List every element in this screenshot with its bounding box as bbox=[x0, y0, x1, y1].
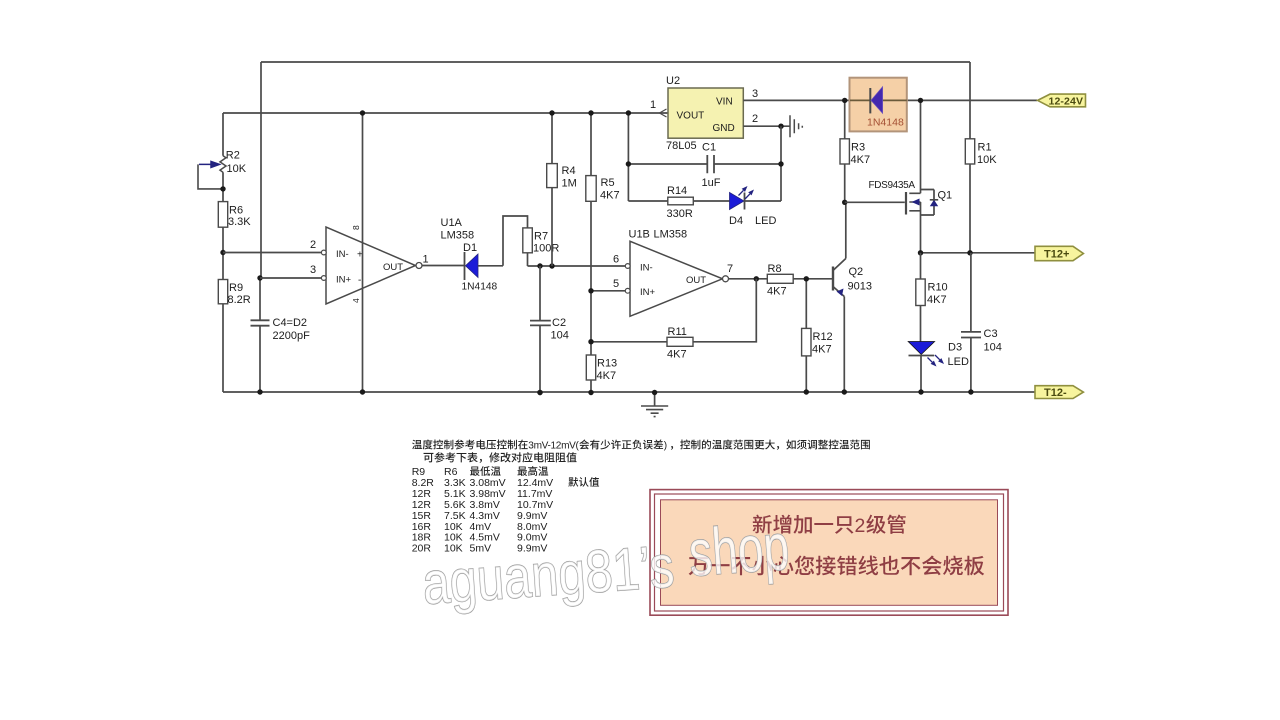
node R11 left bbox=[588, 339, 593, 344]
node out7 junction bbox=[754, 276, 759, 281]
capacitor C3 bbox=[970, 253, 972, 392]
svg-text:104: 104 bbox=[551, 330, 569, 342]
wire pin6 bbox=[624, 265, 626, 267]
note box added diode bbox=[650, 490, 1008, 616]
resistor R1 bbox=[965, 139, 974, 164]
svg-text:1N4148: 1N4148 bbox=[867, 117, 904, 129]
svg-text:FDS9435A: FDS9435A bbox=[869, 180, 916, 191]
resistor R6 bbox=[218, 202, 227, 228]
svg-text:2200pF: 2200pF bbox=[273, 330, 311, 342]
wire U1A out bbox=[422, 265, 464, 267]
svg-text:78L05: 78L05 bbox=[666, 140, 697, 152]
svg-text:6: 6 bbox=[613, 254, 619, 266]
svg-text:10K: 10K bbox=[977, 154, 997, 166]
svg-text:D1: D1 bbox=[463, 242, 477, 254]
wire U1A power bbox=[362, 113, 364, 392]
regulator U2 78L05 bbox=[668, 88, 743, 138]
diode D1 1N4148 bbox=[464, 252, 466, 280]
node pin5 bbox=[588, 288, 593, 293]
svg-text:4K7: 4K7 bbox=[667, 349, 687, 361]
transistor Q2 9013 bbox=[832, 267, 834, 291]
resistor R12 bbox=[805, 279, 807, 392]
svg-text:R6: R6 bbox=[229, 205, 243, 217]
node U1A pin8 bbox=[360, 110, 365, 115]
node gnd-left bbox=[537, 390, 542, 395]
svg-text:R7: R7 bbox=[534, 231, 548, 243]
node R2-R6 junction bbox=[220, 186, 225, 191]
LED D4 bbox=[730, 193, 745, 210]
svg-text:R10: R10 bbox=[928, 282, 948, 294]
svg-text:1uF: 1uF bbox=[702, 177, 721, 189]
node C2 tap bbox=[537, 263, 542, 268]
ground main bbox=[654, 393, 656, 407]
node GND junction bbox=[778, 124, 783, 129]
node C2 bottom bbox=[537, 390, 542, 395]
capacitor C1 bbox=[628, 163, 781, 165]
svg-text:7: 7 bbox=[727, 263, 733, 275]
resistor R14 bbox=[628, 200, 729, 202]
svg-text:1: 1 bbox=[423, 254, 429, 266]
svg-text:1: 1 bbox=[650, 99, 656, 111]
resistor R10 bbox=[920, 253, 922, 342]
svg-text:1N4148: 1N4148 bbox=[462, 282, 498, 293]
svg-text:C1: C1 bbox=[702, 142, 716, 154]
svg-text:IN-: IN- bbox=[336, 249, 349, 260]
resistor R7 bbox=[523, 228, 533, 253]
wire D1 to R7 staple bbox=[478, 216, 528, 266]
svg-text:R9: R9 bbox=[229, 282, 243, 294]
wire R7 bottom bbox=[527, 253, 529, 266]
svg-text:U1A: U1A bbox=[441, 217, 463, 229]
svg-text:shop: shop bbox=[686, 509, 791, 590]
svg-text:104: 104 bbox=[984, 342, 1002, 354]
terminal T12- bbox=[1035, 386, 1083, 399]
wire pin3 bbox=[260, 277, 321, 279]
wire 5V rail bbox=[223, 112, 668, 114]
svg-text:): ) bbox=[664, 441, 667, 452]
node R13 bottom bbox=[588, 390, 593, 395]
svg-text:T12-: T12- bbox=[1044, 387, 1067, 399]
wire right vertical 12-24V bbox=[969, 62, 971, 253]
svg-text:100R: 100R bbox=[533, 243, 559, 255]
resistor R4 bbox=[551, 113, 553, 266]
node U1A pin4 bbox=[360, 389, 365, 394]
svg-text:4K7: 4K7 bbox=[597, 370, 617, 382]
svg-text:R8: R8 bbox=[768, 263, 782, 275]
svg-text:3mV-12mV(: 3mV-12mV( bbox=[528, 441, 579, 452]
svg-text:1M: 1M bbox=[562, 178, 577, 190]
wire mid node to pin6 bbox=[528, 265, 626, 267]
svg-text:R4: R4 bbox=[562, 165, 576, 177]
wire pin5 bbox=[591, 290, 625, 292]
terminal T12+ bbox=[1035, 246, 1083, 260]
wire pin2 bbox=[223, 252, 321, 254]
resistor R11 bbox=[667, 337, 693, 346]
protection diode 1N4148 highlight box bbox=[850, 78, 907, 132]
svg-text:330R: 330R bbox=[667, 208, 693, 220]
svg-text:IN-: IN- bbox=[640, 263, 653, 274]
capacitor C4 bbox=[259, 278, 261, 392]
svg-text:Q2: Q2 bbox=[849, 266, 864, 278]
svg-text:2: 2 bbox=[310, 239, 316, 251]
svg-text:D3: D3 bbox=[948, 342, 962, 354]
svg-text:U2: U2 bbox=[666, 75, 680, 87]
wire C1 right vertical bbox=[780, 126, 782, 201]
svg-text:D4: D4 bbox=[729, 215, 743, 227]
svg-text:R1: R1 bbox=[978, 142, 992, 154]
wire T12+ rail bbox=[921, 252, 1036, 254]
potentiometer R2 bbox=[220, 156, 226, 173]
svg-text:8.2R: 8.2R bbox=[228, 294, 251, 306]
svg-text:R12: R12 bbox=[813, 331, 833, 343]
svg-text:LED: LED bbox=[755, 215, 776, 227]
wire gate bbox=[845, 201, 905, 203]
svg-text:LM358: LM358 bbox=[654, 229, 688, 241]
ground U2 right-facing bbox=[790, 115, 802, 137]
wire U2 VIN out bbox=[743, 99, 1037, 101]
op-amp U1B bbox=[630, 241, 723, 316]
svg-text:R2: R2 bbox=[226, 150, 240, 162]
svg-text:R11: R11 bbox=[668, 326, 687, 338]
svg-text:4K7: 4K7 bbox=[812, 344, 832, 356]
svg-text:5: 5 bbox=[613, 278, 619, 290]
terminal 12-24V bbox=[1038, 94, 1086, 107]
wire U1B out bbox=[729, 278, 768, 280]
svg-text:R13: R13 bbox=[597, 358, 617, 370]
svg-text:T12+: T12+ bbox=[1044, 248, 1069, 260]
LED D3 bbox=[908, 342, 934, 355]
svg-text:C2: C2 bbox=[552, 317, 566, 329]
resistor R5 bbox=[590, 113, 592, 393]
svg-text:VIN: VIN bbox=[716, 97, 733, 108]
svg-text:LED: LED bbox=[948, 356, 969, 368]
wire left rail bbox=[222, 113, 224, 392]
svg-text:OUT: OUT bbox=[383, 262, 403, 273]
svg-text:12-24V: 12-24V bbox=[1049, 95, 1084, 107]
wire U2 GND bbox=[743, 125, 790, 127]
svg-text:8: 8 bbox=[351, 225, 361, 230]
note line2 bbox=[424, 453, 434, 462]
node C3 bottom bbox=[968, 389, 973, 394]
svg-text:3: 3 bbox=[752, 88, 758, 100]
svg-text:4K7: 4K7 bbox=[600, 190, 620, 202]
svg-text:Q1: Q1 bbox=[938, 190, 953, 202]
svg-text:IN+: IN+ bbox=[640, 287, 656, 298]
svg-text:R5: R5 bbox=[601, 177, 615, 189]
svg-text:R3: R3 bbox=[851, 142, 865, 154]
op-amp U1A bbox=[326, 227, 416, 304]
node gate junction bbox=[842, 200, 847, 205]
svg-text:10K: 10K bbox=[227, 163, 247, 175]
wire feedback bbox=[693, 279, 756, 342]
node T12+ b bbox=[967, 250, 972, 255]
svg-text:R14: R14 bbox=[667, 185, 687, 197]
resistor R3 bbox=[844, 100, 846, 202]
svg-text:4K7: 4K7 bbox=[851, 154, 871, 166]
svg-text:3: 3 bbox=[310, 264, 316, 276]
node D3 bottom bbox=[918, 389, 923, 394]
svg-text:-: - bbox=[358, 275, 361, 286]
svg-text:LM358: LM358 bbox=[441, 230, 475, 242]
node pin2 tap bbox=[220, 250, 225, 255]
node C4 bottom bbox=[257, 389, 262, 394]
note line1 bbox=[412, 440, 422, 450]
svg-text:U1B: U1B bbox=[629, 229, 650, 241]
node Q1 top bbox=[918, 98, 923, 103]
resistor R13 bbox=[586, 355, 595, 380]
node T12+ a bbox=[918, 250, 923, 255]
node R3 top bbox=[842, 98, 847, 103]
wire top rail bbox=[261, 61, 970, 63]
svg-text:C4=D2: C4=D2 bbox=[273, 317, 308, 329]
svg-text:2: 2 bbox=[855, 515, 866, 537]
node R4 bottom bbox=[549, 263, 554, 268]
svg-text:2: 2 bbox=[752, 113, 758, 125]
capacitor C2 bbox=[539, 266, 541, 393]
svg-text:4K7: 4K7 bbox=[927, 294, 947, 306]
wire bottom rail bbox=[223, 391, 1036, 393]
wire C1 left vertical bbox=[627, 113, 629, 201]
svg-text:C3: C3 bbox=[984, 328, 998, 340]
node pin3 tap bbox=[257, 275, 262, 280]
svg-text:9013: 9013 bbox=[848, 281, 872, 293]
resistor R8 bbox=[767, 274, 793, 283]
svg-text:VOUT: VOUT bbox=[677, 111, 705, 122]
svg-text:4K7: 4K7 bbox=[767, 286, 787, 298]
wire left sense vertical bbox=[260, 62, 262, 278]
svg-text:IN+: IN+ bbox=[336, 275, 352, 286]
svg-text:4: 4 bbox=[351, 298, 361, 303]
watermark aguang81 shop bbox=[419, 509, 792, 617]
resistor R9 bbox=[218, 280, 227, 304]
svg-text:GND: GND bbox=[713, 123, 735, 134]
svg-text:OUT: OUT bbox=[686, 275, 706, 286]
svg-text:3.3K: 3.3K bbox=[228, 216, 251, 228]
